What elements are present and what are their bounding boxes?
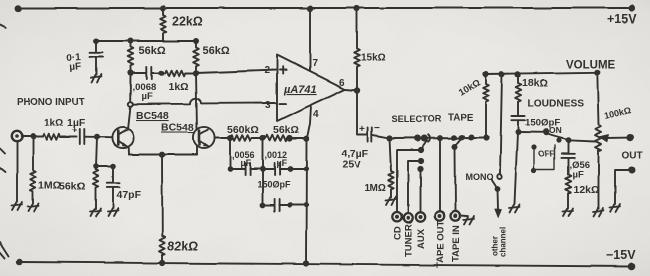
capacitor C .056uF — [561, 154, 574, 175]
wire emitter line y154 — [129, 154, 197, 156]
node 15k/rail junction — [354, 5, 360, 11]
wire op-amp output pin 6 — [345, 89, 357, 90]
tape switch lever — [456, 136, 464, 145]
selector wiper arc — [429, 134, 431, 141]
node 82k / bottom rail — [160, 260, 166, 266]
node tape-out junction — [437, 135, 443, 141]
resistor R 1M mid vertical — [388, 138, 393, 197]
svg-text:1MΩ: 1MΩ — [38, 180, 61, 192]
svg-text:3: 3 — [265, 100, 271, 111]
jack AUX — [416, 212, 425, 221]
left edge scan mark 3 — [0, 242, 9, 258]
transistor Q1 BC548 — [112, 127, 133, 148]
jack TAPE IN — [451, 211, 460, 220]
wire cap network mid drop — [262, 138, 264, 205]
svg-text:µF: µF — [276, 158, 287, 168]
wire mono to other channel arrow — [497, 189, 500, 210]
node OUT return terminal — [629, 167, 636, 174]
node feedback right / op-amp + pickoff — [193, 70, 199, 76]
svg-text:4: 4 — [313, 109, 319, 120]
op-amp U1 uA741 triangle — [277, 55, 345, 121]
ground below loudness network — [509, 205, 520, 213]
wire Q2 collector vertical — [196, 73, 197, 130]
node 0.1uF top — [93, 38, 99, 44]
left edge scan mark 1 — [0, 25, 6, 28]
svg-text:6: 6 — [339, 78, 345, 89]
resistor R 15k vertical — [354, 8, 360, 90]
node base/56k junction — [94, 134, 100, 140]
svg-text:7: 7 — [313, 58, 319, 69]
node selector wiper dot B — [421, 135, 428, 142]
wire TUNER contact to jack — [408, 162, 421, 213]
capacitor C 4.7uF output (polarized) — [368, 128, 372, 142]
node 56k right end — [287, 135, 293, 141]
node OFF corner dot — [531, 168, 536, 173]
wire selector line — [390, 137, 487, 140]
volume pot R 100k vertical — [596, 72, 602, 208]
svg-text:−: − — [374, 123, 380, 134]
jack TUNER — [403, 213, 412, 222]
capacitor C .0012uF — [275, 163, 280, 175]
wire loudness tap to ON contact — [518, 131, 546, 133]
svg-text:2: 2 — [265, 65, 271, 76]
node Q2 emitter / 560k left — [227, 135, 233, 141]
wire pin 4 supply — [307, 105, 312, 140]
ground below 56k input — [90, 209, 101, 217]
left edge scan mark 2b — [0, 149, 5, 154]
svg-text:µF: µF — [69, 61, 82, 73]
node 22k/rail junction — [160, 5, 166, 11]
wire 4.7uF to selector node — [372, 135, 389, 138]
wire common to volume tap — [568, 140, 596, 141]
svg-text:µF: µF — [240, 158, 251, 168]
node 47pF top — [110, 164, 116, 170]
svg-text:22kΩ: 22kΩ — [172, 15, 203, 29]
capacitor C 1500pF loudness — [511, 116, 524, 132]
svg-text:+15V: +15V — [607, 12, 637, 26]
wire pin 7 supply — [309, 8, 311, 72]
ground below 12k — [563, 208, 574, 216]
wire TAPE OUT to jack — [439, 138, 441, 211]
wire pin4 vertical to bottom rail — [305, 140, 308, 264]
wire 1uF to Q1 base — [84, 136, 112, 139]
wire 82k drop — [161, 155, 163, 236]
left edge scan mark 2 — [0, 168, 5, 172]
ground below mid 1M — [386, 197, 397, 205]
wire 56k-input drop — [96, 137, 97, 167]
node selector wiper dot A — [415, 135, 422, 142]
node loudness tap — [515, 129, 521, 135]
svg-text:47pF: 47pF — [116, 189, 141, 201]
resistor R 56k right vertical — [193, 41, 199, 73]
svg-text:+: + — [72, 125, 77, 135]
wire output down to 4.7uF — [357, 90, 367, 135]
node loudness common — [565, 137, 571, 143]
resistor R 1k input horizontal — [43, 134, 77, 140]
node selector line right end / 10k bottom — [483, 134, 489, 140]
wire input jack shell to ground — [16, 142, 18, 202]
jack TAPE OUT — [435, 211, 444, 220]
svg-text:56kΩ: 56kΩ — [273, 124, 299, 136]
svg-text:15kΩ: 15kΩ — [361, 53, 386, 64]
wire TAPE IN jack to ground — [460, 215, 467, 218]
OFF label box — [534, 146, 555, 170]
capacitor C .0056uF — [246, 163, 251, 175]
jack CD — [392, 212, 401, 221]
node y169 left — [227, 166, 233, 172]
node AUX contact — [417, 166, 423, 172]
node top-rail left end — [15, 5, 22, 12]
wire +15V top rail — [18, 7, 632, 9]
wire Q1 collector vertical — [128, 73, 131, 129]
node selector line left / 1M junction — [386, 135, 392, 141]
svg-text:µF: µF — [572, 170, 583, 181]
node volume corner — [594, 69, 600, 75]
node y169 mid — [260, 166, 266, 172]
ground below 47pF — [108, 208, 119, 216]
svg-text:OUT: OUT — [622, 151, 643, 162]
node CD contact — [418, 147, 424, 153]
svg-text:LOUDNESS: LOUDNESS — [528, 98, 585, 109]
node bottom-rail left end — [17, 259, 23, 265]
capacitor C 0.0068uF feedback — [147, 67, 152, 79]
svg-text:channel: channel — [499, 227, 508, 257]
svg-text:CD: CD — [393, 226, 404, 240]
svg-text:BC548: BC548 — [161, 122, 194, 134]
resistor R 18k vertical — [515, 74, 521, 114]
node 560k/56k junction — [260, 135, 266, 141]
svg-text:PHONO INPUT: PHONO INPUT — [17, 97, 85, 108]
wire AUX contact to jack — [420, 170, 422, 213]
svg-text:+: + — [359, 124, 365, 135]
resistor R 82k vertical — [160, 236, 166, 263]
svg-text:1kΩ: 1kΩ — [44, 118, 63, 129]
node pin4 line / 56k junction — [303, 136, 309, 142]
node pin7/rail junction — [307, 5, 313, 11]
svg-text:56kΩ: 56kΩ — [203, 45, 230, 57]
node 18k top — [515, 71, 521, 77]
resistor R 560k horizontal — [230, 135, 263, 141]
svg-text:56kΩ: 56kΩ — [59, 181, 85, 193]
node 10k top — [483, 71, 489, 77]
transistor Q2 BC548 — [193, 127, 214, 148]
svg-text:−15V: −15V — [606, 248, 636, 262]
node OFF contact — [531, 144, 536, 149]
node TAPE IN contact — [452, 144, 458, 150]
wire common down to .056uF — [567, 140, 569, 153]
node input/1M junction — [30, 134, 36, 140]
svg-text:TAPE IN: TAPE IN — [451, 225, 462, 262]
svg-text:18kΩ: 18kΩ — [522, 77, 548, 89]
wire loudness tap to ground — [515, 132, 518, 204]
node loudness lever mid — [556, 138, 561, 143]
node y169 joins pin4 vertical — [303, 166, 308, 171]
wire cap network left drop — [229, 138, 231, 169]
svg-text:SELECTOR: SELECTOR — [392, 114, 442, 124]
node y205 joins pin4 vertical — [303, 202, 308, 207]
wire node line y41 — [96, 40, 196, 42]
svg-text:MONO: MONO — [465, 173, 493, 183]
svg-text:12kΩ: 12kΩ — [573, 184, 599, 196]
svg-text:BC548: BC548 — [136, 110, 169, 122]
svg-text:AUX: AUX — [416, 228, 427, 249]
resistor R 56k left vertical — [128, 41, 134, 73]
node tape switch dot A — [451, 134, 457, 140]
mono switch lever — [492, 180, 498, 189]
svg-text:TAPE OUT: TAPE OUT — [436, 220, 447, 268]
node bottom-rail right end — [628, 263, 636, 271]
svg-text:56kΩ: 56kΩ — [139, 45, 166, 57]
wire mono branch vertical — [500, 74, 502, 174]
resistor R 56k input vertical — [93, 167, 98, 210]
volume wiper arrow — [606, 137, 630, 139]
ground right of TAPE IN jack — [464, 217, 475, 225]
resistor R 56k mid horizontal — [266, 135, 306, 141]
capacitor C 0.1uF decoupling — [90, 41, 103, 75]
svg-text:150ØpF: 150ØpF — [257, 180, 291, 190]
node y205 right — [287, 202, 292, 207]
capacitor C 1uF input (polarized) — [80, 129, 85, 144]
wire feedback mid — [152, 72, 161, 74]
node OUT signal terminal — [627, 134, 634, 141]
wire volume feed line y74 — [486, 72, 597, 74]
node Q1 collector / minus-line junction (small loop) — [128, 102, 133, 107]
phono input jack — [12, 131, 22, 141]
svg-text:1kΩ: 1kΩ — [169, 81, 189, 93]
node output/15k junction — [354, 87, 360, 93]
wire TAPE IN contact to jack — [454, 147, 457, 212]
resistor R 12k vertical — [565, 175, 571, 209]
wiper arrowhead — [600, 135, 610, 142]
mono switch bottom contact — [495, 186, 501, 192]
node pin4/bottom rail — [303, 260, 309, 266]
wire 1500pF loop y205 line — [263, 204, 306, 206]
node tape switch dot C — [468, 134, 474, 140]
node feedback cap/res junction — [159, 70, 165, 76]
node ON contact — [543, 129, 550, 136]
selector wiper lever — [421, 140, 428, 150]
svg-text:1MΩ: 1MΩ — [364, 183, 386, 194]
wire CD contact to jack — [397, 150, 421, 212]
node mono branch top — [499, 71, 505, 77]
svg-text:TAPE: TAPE — [448, 113, 474, 124]
ground below input jack — [12, 203, 23, 211]
loudness switch lever — [549, 135, 568, 141]
ground below input 1M — [28, 204, 39, 212]
wire feedback line y73 left part — [131, 72, 146, 74]
node 56k-left top — [128, 38, 134, 44]
mono switch top contact — [497, 175, 501, 179]
wire input jack to 1k — [22, 136, 43, 138]
node emitter-line / 82k junction — [159, 152, 165, 158]
svg-text:TUNER: TUNER — [404, 224, 415, 257]
resistor R 1k feedback horizontal — [165, 70, 196, 76]
capacitor C 1500pF mid — [275, 199, 280, 211]
node TUNER contact — [418, 158, 424, 164]
wire op-amp minus input line with hop over Q2 collector — [133, 98, 277, 104]
svg-text:25V: 25V — [342, 159, 361, 171]
svg-text:µA741: µA741 — [283, 84, 317, 96]
node y205 left — [260, 202, 266, 208]
svg-text:µF: µF — [142, 91, 153, 102]
wire cap network y169 line — [230, 168, 306, 170]
wire op-amp plus input line — [196, 70, 277, 73]
resistor R 22k vertical — [160, 8, 166, 41]
wire OUT return to ground — [615, 170, 632, 204]
wire to 47pF — [96, 166, 113, 168]
op-amp plus mark — [280, 67, 287, 74]
op-amp minus mark — [280, 103, 287, 105]
resistor R 1M input vertical — [30, 137, 35, 204]
node feedback left — [128, 70, 134, 76]
resistor R 10k vertical — [483, 74, 489, 138]
ground below volume pot — [593, 208, 604, 216]
wire Q2 emitter to 560k line — [215, 137, 230, 139]
svg-text:ON: ON — [549, 125, 562, 135]
ground below 0.1uF — [91, 75, 102, 83]
svg-text:82kΩ: 82kΩ — [167, 239, 198, 253]
svg-text:OFF: OFF — [538, 150, 554, 159]
wire Q2 bottom lead — [196, 146, 198, 155]
arrow to other channel — [495, 210, 502, 219]
ground below OUT return — [610, 204, 621, 212]
wire Q1 emitter down — [128, 147, 130, 155]
capacitor C 47pF — [107, 167, 120, 209]
svg-text:VOLUME: VOLUME — [566, 59, 616, 71]
node y169 right — [287, 166, 293, 172]
node tape switch dot B — [459, 134, 465, 140]
wire -15V bottom rail — [20, 262, 632, 267]
svg-text:560kΩ: 560kΩ — [227, 124, 259, 136]
node 56k-right top — [193, 38, 199, 44]
node top-rail right end — [628, 4, 635, 11]
node 56k-input top — [93, 164, 99, 170]
